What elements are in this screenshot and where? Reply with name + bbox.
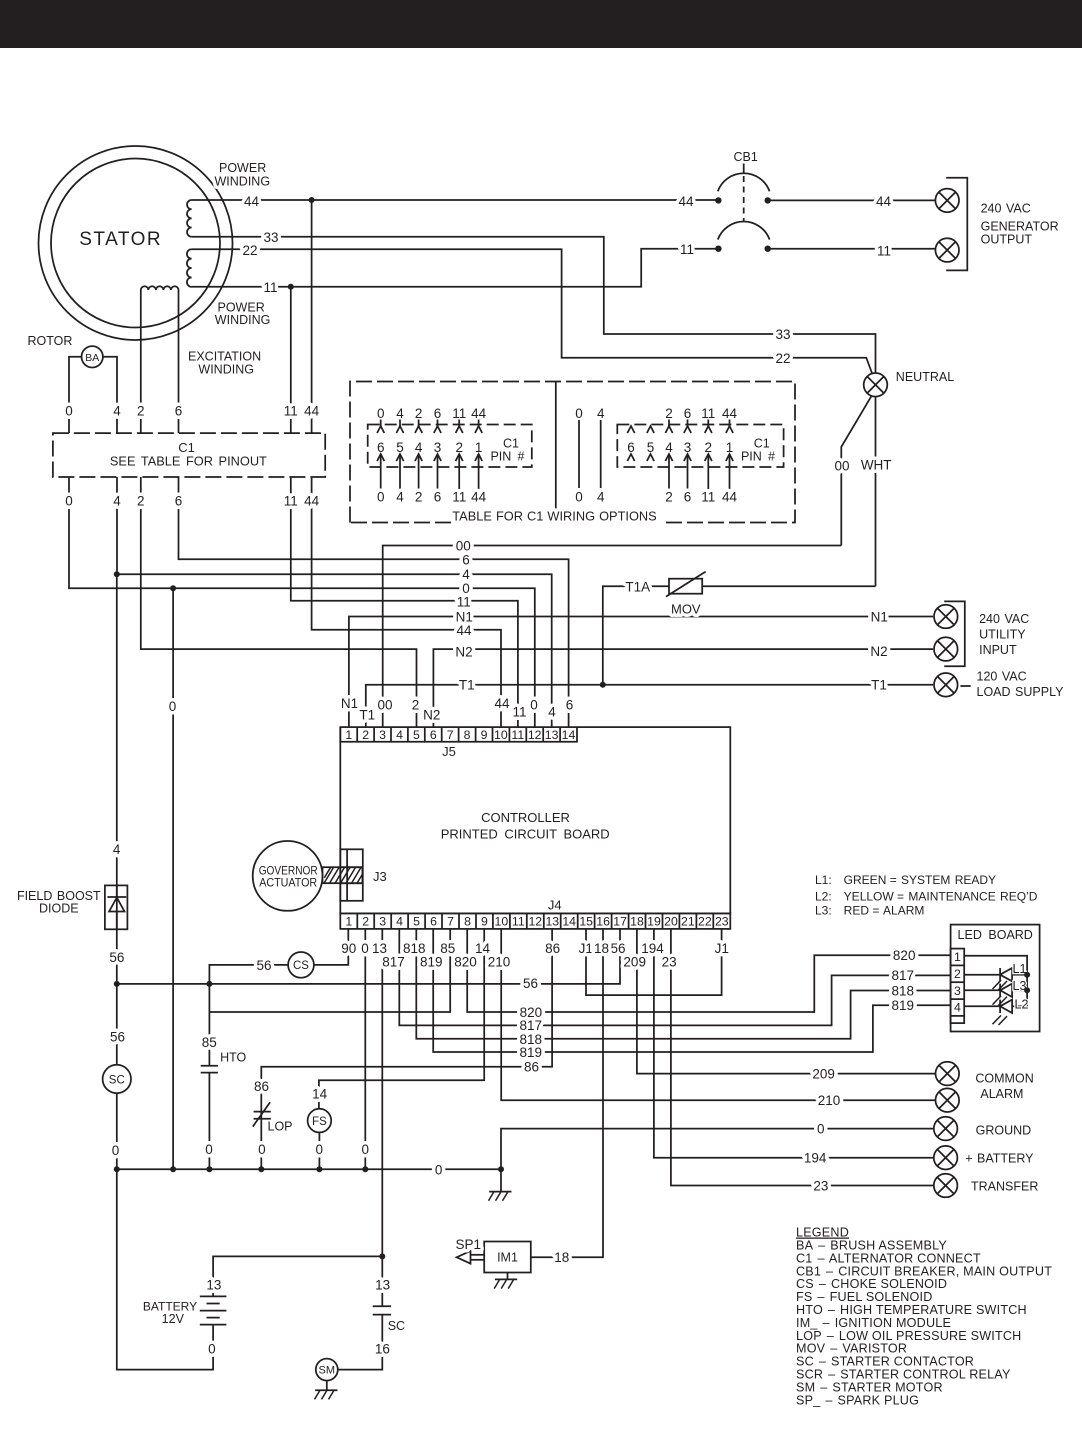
junction 11/down-lead — [288, 284, 294, 290]
svg-text:23: 23 — [662, 955, 677, 970]
svg-text:22: 22 — [242, 243, 257, 258]
wire J1 jumper (J4 pins 15-23) — [586, 929, 722, 995]
svg-text:COMMON: COMMON — [975, 1072, 1033, 1086]
junction 56-line at diode column — [114, 981, 120, 987]
svg-text:1: 1 — [345, 728, 352, 742]
svg-text:210: 210 — [488, 955, 511, 970]
svg-text:GENERATOR: GENERATOR — [981, 220, 1059, 234]
svg-text:6: 6 — [566, 698, 574, 713]
junction 44/down-lead — [309, 197, 315, 203]
wire 22 stator — [192, 249, 873, 374]
svg-text:194: 194 — [804, 1151, 827, 1166]
field boost diode wire (4/56 line from junction down) — [116, 574, 118, 984]
svg-text:0: 0 — [361, 941, 369, 956]
svg-text:CONTROLLER: CONTROLLER — [481, 810, 570, 825]
svg-text:15: 15 — [579, 915, 593, 929]
svg-text:SM: SM — [319, 1365, 336, 1377]
junction LED L1 anode — [1024, 972, 1030, 978]
svg-text:11: 11 — [701, 406, 715, 421]
wire 14 (J4 pin 9 to fuel solenoid) — [319, 929, 484, 1109]
svg-text:J1: J1 — [579, 941, 593, 956]
table for C1 wiring options outer dashed box — [350, 382, 795, 523]
low oil pressure switch LOP — [253, 1102, 293, 1133]
stator inner circle — [51, 159, 220, 328]
svg-text:4: 4 — [113, 842, 121, 857]
svg-text:MOV – VARISTOR: MOV – VARISTOR — [796, 1342, 907, 1356]
ground (main bus) — [489, 1192, 512, 1201]
svg-text:2: 2 — [415, 406, 423, 421]
starter contactor SC contact — [373, 1306, 405, 1333]
svg-text:ALARM: ALARM — [980, 1087, 1023, 1101]
svg-text:0: 0 — [377, 406, 385, 421]
wire 00 (neutral to J5 pin 3) — [383, 546, 842, 728]
svg-text:10: 10 — [495, 915, 509, 929]
wire LOP to ground bus — [260, 1119, 262, 1170]
svg-text:44: 44 — [494, 696, 510, 711]
svg-text:SC – STARTER CONTACTOR: SC – STARTER CONTACTOR — [796, 1355, 974, 1369]
svg-text:11: 11 — [877, 244, 891, 259]
svg-text:BA: BA — [85, 352, 99, 364]
svg-text:2: 2 — [137, 403, 145, 418]
wire 86 (J4 pin 13 to LOP) — [261, 929, 552, 1112]
table-right pin 1 wire 44 — [722, 406, 738, 505]
svg-text:SP1: SP1 — [456, 1237, 482, 1252]
svg-text:22: 22 — [775, 351, 790, 366]
label 240 VAC UTILITY INPUT — [979, 612, 1029, 657]
svg-text:2: 2 — [137, 493, 145, 508]
svg-text:56: 56 — [523, 976, 538, 991]
svg-text:820: 820 — [454, 955, 477, 970]
svg-text:7: 7 — [447, 915, 454, 929]
svg-text:4: 4 — [396, 490, 404, 505]
governor actuator — [253, 841, 323, 911]
svg-text:11: 11 — [512, 704, 526, 719]
svg-text:44: 44 — [304, 493, 320, 508]
wire 33 stator — [192, 237, 876, 374]
svg-text:7: 7 — [447, 728, 454, 742]
svg-text:WINDING: WINDING — [215, 175, 271, 189]
battery 12V — [143, 1296, 227, 1326]
svg-text:23: 23 — [715, 915, 729, 929]
wire T1A to MOV — [603, 586, 669, 685]
svg-text:INPUT: INPUT — [979, 643, 1017, 657]
svg-text:44: 44 — [456, 623, 472, 638]
label 120 VAC LOAD SUPPLY — [977, 669, 1065, 699]
svg-text:2: 2 — [362, 915, 369, 929]
wire N1 (J5 pin 1 to utility terminal) — [349, 617, 933, 728]
svg-text:N1: N1 — [341, 696, 358, 711]
svg-text:PIN #: PIN # — [490, 450, 524, 464]
wire excitation leg 2 — [140, 290, 142, 433]
svg-text:+ BATTERY: + BATTERY — [965, 1152, 1034, 1166]
wire BA left to node 0 — [69, 357, 82, 433]
table-left pin 1 wire 44 — [471, 406, 487, 505]
svg-text:4: 4 — [548, 704, 556, 719]
svg-text:21: 21 — [681, 915, 695, 929]
svg-text:4: 4 — [396, 915, 403, 929]
wire 819 (J4 pin 6 to LED board) — [433, 929, 950, 1052]
svg-text:0: 0 — [377, 490, 385, 505]
table-right pin 6 (unused) — [627, 426, 635, 461]
starter motor SM — [316, 1359, 338, 1381]
svg-text:13: 13 — [545, 915, 559, 929]
svg-text:BA – BRUSH ASSEMBLY: BA – BRUSH ASSEMBLY — [796, 1239, 947, 1253]
table-right pin 4 wire 2 — [665, 406, 673, 505]
svg-text:9: 9 — [481, 728, 488, 742]
brush assembly BA — [82, 346, 103, 367]
svg-text:LOP – LOW OIL PRESSURE SWITC: LOP – LOW OIL PRESSURE SWITCH — [796, 1329, 1021, 1343]
POWER WINDING label (bottom) — [215, 301, 271, 328]
connector C1 dashed box — [53, 433, 325, 477]
svg-text:0: 0 — [258, 1142, 266, 1157]
svg-text:PRINTED CIRCUIT BOARD: PRINTED CIRCUIT BOARD — [441, 827, 610, 842]
svg-text:4: 4 — [113, 493, 121, 508]
svg-text:209: 209 — [812, 1067, 835, 1082]
svg-text:4: 4 — [597, 406, 605, 421]
wire 11 stator to CB1 — [192, 249, 719, 287]
connector J4 header — [340, 913, 730, 929]
table divider — [555, 382, 557, 523]
svg-text:44: 44 — [722, 490, 738, 505]
tick at T1 terminal — [960, 685, 970, 687]
right pinout inner dashed box — [617, 425, 783, 468]
svg-text:210: 210 — [818, 1093, 841, 1108]
svg-text:TRANSFER: TRANSFER — [971, 1179, 1038, 1193]
wire excitation leg 6 — [178, 290, 180, 433]
svg-text:18: 18 — [594, 941, 609, 956]
svg-text:4: 4 — [396, 406, 404, 421]
LED L3 — [993, 984, 1028, 1006]
wire 0 (J4 pin 2 to ground bus) — [364, 929, 366, 1169]
label CONTROLLER PRINTED CIRCUIT BOARD — [441, 810, 610, 842]
svg-text:209: 209 — [623, 955, 646, 970]
svg-text:FS: FS — [312, 1116, 327, 1128]
power winding coil (lower, wires 22/11) — [187, 249, 192, 287]
svg-text:13: 13 — [375, 1278, 390, 1293]
svg-text:OUTPUT: OUTPUT — [981, 233, 1033, 247]
svg-text:44: 44 — [722, 406, 738, 421]
svg-text:817: 817 — [892, 968, 915, 983]
wire SC contact to starter motor — [338, 1315, 383, 1370]
terminal + battery — [934, 1146, 958, 1170]
svg-text:0: 0 — [169, 699, 177, 714]
svg-text:6: 6 — [434, 406, 442, 421]
svg-text:11: 11 — [457, 595, 471, 610]
svg-text:CS: CS — [293, 960, 309, 972]
svg-text:N1: N1 — [871, 610, 888, 625]
svg-text:820: 820 — [520, 1005, 543, 1020]
terminal transfer — [934, 1174, 958, 1198]
svg-text:11: 11 — [680, 242, 694, 257]
svg-text:20: 20 — [664, 915, 678, 929]
circuit breaker CB1 — [715, 150, 771, 252]
svg-text:817: 817 — [382, 955, 405, 970]
wire 6 (C1 to J5 pin 14) — [179, 477, 569, 727]
svg-text:56: 56 — [256, 958, 271, 973]
svg-text:SC: SC — [109, 1074, 125, 1086]
svg-text:WHT: WHT — [861, 457, 892, 472]
svg-text:6: 6 — [434, 490, 442, 505]
svg-text:0: 0 — [361, 1142, 369, 1157]
svg-text:819: 819 — [420, 955, 443, 970]
svg-text:4: 4 — [113, 403, 121, 418]
svg-text:0: 0 — [65, 493, 73, 508]
svg-text:33: 33 — [775, 327, 790, 342]
svg-text:6: 6 — [175, 403, 183, 418]
svg-text:11: 11 — [263, 280, 277, 295]
svg-text:86: 86 — [254, 1079, 269, 1094]
svg-text:STATOR: STATOR — [79, 229, 162, 250]
power winding coil (upper, wires 44/33) — [187, 200, 192, 237]
svg-text:GROUND: GROUND — [976, 1123, 1032, 1137]
top black title bar — [0, 0, 1082, 48]
svg-text:16: 16 — [596, 915, 610, 929]
fuel solenoid FS — [308, 1109, 332, 1133]
svg-text:L2: YELLOW = MAINTENANCE REQ: L2: YELLOW = MAINTENANCE REQ’D — [815, 890, 1038, 904]
svg-text:J4: J4 — [548, 898, 562, 913]
svg-text:819: 819 — [520, 1045, 543, 1060]
wire 11 (C1 to J5 pin 11) — [291, 477, 518, 727]
svg-text:4: 4 — [597, 490, 605, 505]
wire 44 (C1 to J5 pin 10) — [312, 477, 501, 727]
svg-text:11: 11 — [284, 403, 298, 418]
svg-text:SCR – STARTER CONTROL RELAY: SCR – STARTER CONTROL RELAY — [796, 1368, 1011, 1382]
svg-text:33: 33 — [263, 230, 278, 245]
svg-text:9: 9 — [481, 915, 488, 929]
wire 210 (J4 pin 10 to alarm terminal) — [501, 929, 935, 1100]
terminal 11 generator output — [935, 238, 959, 262]
wire N2 (J5 pin 6 to utility terminal) — [433, 649, 933, 727]
svg-text:ACTUATOR: ACTUATOR — [259, 875, 317, 889]
svg-text:ROTOR: ROTOR — [28, 334, 73, 348]
junction bus/pin2 — [362, 1166, 368, 1172]
svg-text:NEUTRAL: NEUTRAL — [896, 370, 954, 384]
svg-text:6: 6 — [175, 493, 183, 508]
wire IM1 to ground — [507, 1273, 509, 1280]
svg-text:13: 13 — [545, 728, 559, 742]
wire J4 pin 1 to choke solenoid (90) — [314, 929, 348, 965]
wire diode column to starter contactor SC — [116, 984, 118, 1065]
svg-text:WINDING: WINDING — [215, 313, 271, 327]
wire 2 (C1 to J5 pin 5) — [141, 477, 417, 727]
LED L1 — [993, 968, 1028, 990]
junction 13 wire split — [379, 1253, 385, 1259]
svg-text:18: 18 — [554, 1250, 569, 1265]
wire 194 (J4 pin 19 to battery terminal) — [654, 929, 933, 1158]
svg-text:0: 0 — [208, 1342, 216, 1357]
svg-text:2: 2 — [954, 967, 961, 981]
svg-text:LOAD SUPPLY: LOAD SUPPLY — [977, 685, 1065, 699]
wire 44 stator to CB1 — [192, 199, 719, 201]
high temperature switch HTO — [201, 1051, 247, 1073]
svg-text:22: 22 — [698, 915, 712, 929]
svg-text:EXCITATION: EXCITATION — [188, 350, 261, 364]
svg-text:PIN #: PIN # — [741, 450, 775, 464]
label 240 VAC GENERATOR OUTPUT — [981, 202, 1059, 247]
table-left pin 2 wire 11 — [452, 406, 466, 505]
svg-text:2: 2 — [665, 490, 673, 505]
svg-text:12V: 12V — [162, 1312, 185, 1326]
svg-text:5: 5 — [413, 728, 420, 742]
svg-text:3: 3 — [954, 984, 961, 998]
table-right pin 5 (unused) — [647, 426, 655, 461]
svg-text:HTO: HTO — [220, 1051, 246, 1065]
svg-text:6: 6 — [430, 915, 437, 929]
junction CS leg / 56 line — [206, 981, 212, 987]
svg-text:MOV: MOV — [671, 602, 701, 617]
svg-text:56: 56 — [110, 1030, 125, 1045]
svg-text:14: 14 — [312, 1086, 328, 1101]
terminal common alarm 209 — [936, 1062, 960, 1086]
wire 11 lead down to C1 — [290, 287, 292, 433]
svg-text:4: 4 — [954, 1001, 961, 1015]
svg-text:FS – FUEL SOLENOID: FS – FUEL SOLENOID — [796, 1290, 933, 1304]
junction 0-line to ground branch — [170, 585, 176, 591]
svg-text:SC: SC — [388, 1319, 405, 1333]
stator outer circle — [39, 146, 233, 340]
svg-text:SM – STARTER MOTOR: SM – STARTER MOTOR — [796, 1380, 943, 1394]
wire 209 (J4 pin 18 to common alarm) — [637, 929, 936, 1074]
wire bus to ground symbol — [500, 1169, 502, 1191]
junction T1/T1A — [600, 682, 606, 688]
svg-text:4: 4 — [462, 567, 470, 582]
table-right straight wire 0 — [575, 406, 583, 505]
wire 4 (C1 through junction to J5 pin 13) — [117, 477, 552, 727]
starter contactor SC coil — [103, 1065, 131, 1093]
svg-text:L2: L2 — [1015, 997, 1029, 1011]
wire 817 (J4 pin 4 to LED board) — [399, 929, 950, 1026]
svg-text:6: 6 — [462, 553, 470, 568]
svg-text:14: 14 — [562, 915, 576, 929]
svg-text:0: 0 — [435, 1162, 443, 1177]
wire 13 to SC contact — [381, 1256, 383, 1306]
svg-text:818: 818 — [892, 983, 915, 998]
wire 85 (J4 pin 7 to HTO) — [209, 929, 450, 1012]
wire 56 (J4 pin 17 to SC/HTO) — [117, 929, 620, 984]
svg-text:8: 8 — [464, 728, 471, 742]
wire FS to ground bus — [318, 1132, 320, 1169]
excitation winding coil — [141, 286, 179, 290]
svg-text:13: 13 — [206, 1278, 221, 1293]
junction 4-line — [114, 571, 120, 577]
wire 11 CB1 to output terminal — [768, 248, 936, 250]
svg-text:44: 44 — [471, 406, 487, 421]
wire pin 2 to LED L1 — [964, 974, 1000, 976]
wire pin 4 to LED L2 — [964, 1005, 1000, 1007]
connector J5 header — [340, 727, 577, 742]
svg-text:0: 0 — [205, 1142, 213, 1157]
svg-text:120 VAC: 120 VAC — [977, 669, 1027, 683]
svg-text:POWER: POWER — [219, 161, 266, 175]
wire BA right to node 4 — [103, 357, 117, 433]
svg-text:820: 820 — [893, 948, 916, 963]
wire SM to ground — [326, 1381, 328, 1391]
svg-text:2: 2 — [415, 490, 423, 505]
svg-text:CS – CHOKE SOLENOID: CS – CHOKE SOLENOID — [796, 1277, 947, 1291]
junction bus/ground lead — [498, 1166, 504, 1172]
POWER WINDING label (top) — [215, 161, 271, 189]
svg-text:L1: GREEN = SYSTEM READY: L1: GREEN = SYSTEM READY — [815, 873, 996, 887]
table-right pin 3 wire 6 — [684, 406, 692, 505]
svg-text:44: 44 — [876, 194, 892, 209]
svg-text:17: 17 — [613, 915, 627, 929]
table-right pin 2 wire 11 — [701, 406, 715, 505]
wire 44 lead down to C1 — [311, 200, 313, 433]
label FIELD BOOST DIODE — [17, 889, 101, 916]
svg-text:LED BOARD: LED BOARD — [958, 928, 1033, 942]
wire 18 (J4 pin 16 to ignition module) — [531, 929, 603, 1257]
svg-text:86: 86 — [524, 1060, 539, 1075]
wire 44 CB1 to output terminal — [768, 199, 936, 201]
wire LED common (pin 1) — [964, 956, 1027, 1007]
wire 00 from neutral — [841, 396, 871, 546]
neutral terminal — [864, 373, 888, 397]
svg-text:2: 2 — [412, 698, 420, 713]
svg-text:23: 23 — [813, 1178, 828, 1193]
table-left pin 5 wire 4 — [396, 406, 404, 505]
ground (ignition module) — [494, 1279, 517, 1288]
svg-text:CB1: CB1 — [734, 150, 758, 164]
svg-text:T1: T1 — [359, 708, 375, 723]
wire battery negative return — [117, 1169, 213, 1369]
svg-text:85: 85 — [202, 1035, 217, 1050]
svg-text:44: 44 — [678, 194, 694, 209]
field boost diode — [105, 885, 128, 929]
svg-text:12: 12 — [528, 915, 542, 929]
svg-text:J5: J5 — [442, 744, 456, 759]
svg-text:44: 44 — [304, 403, 320, 418]
terminal N2 utility input — [934, 637, 958, 661]
svg-text:11: 11 — [452, 406, 466, 421]
svg-text:3: 3 — [379, 915, 386, 929]
svg-text:3: 3 — [379, 728, 386, 742]
terminal common alarm 210 — [936, 1088, 960, 1112]
ground bus — [117, 1168, 501, 1170]
svg-text:2: 2 — [362, 728, 369, 742]
varistor MOV — [666, 572, 706, 617]
svg-text:90: 90 — [341, 941, 356, 956]
svg-text:19: 19 — [647, 915, 661, 929]
terminal ground — [934, 1117, 958, 1141]
controller printed circuit board outline — [340, 727, 730, 913]
svg-text:L3: RED = ALARM: L3: RED = ALARM — [815, 904, 924, 918]
wire 0 (C1 to J5 pin 12) — [69, 477, 535, 727]
label C1 PIN # (right table) — [741, 437, 775, 464]
svg-text:819: 819 — [892, 998, 915, 1013]
spark plug lead SP1 — [456, 1237, 485, 1263]
table-left pin 6 wire 0 — [377, 406, 385, 505]
left pinout inner dashed box — [368, 425, 532, 468]
wire HTO column — [208, 1012, 210, 1066]
svg-text:00: 00 — [456, 539, 471, 554]
wire 0 branch to ground bus — [172, 588, 174, 1169]
choke solenoid CS — [288, 952, 314, 978]
svg-text:4: 4 — [396, 728, 403, 742]
svg-text:0: 0 — [65, 403, 73, 418]
junction bus/FS — [316, 1166, 322, 1172]
svg-text:WINDING: WINDING — [198, 363, 254, 377]
junction bus/0 branch — [170, 1166, 176, 1172]
svg-text:T1: T1 — [871, 678, 887, 693]
svg-text:44: 44 — [471, 490, 487, 505]
svg-text:14: 14 — [562, 728, 576, 742]
svg-text:11: 11 — [284, 493, 298, 508]
svg-text:TABLE FOR C1 WIRING OPTIONS: TABLE FOR C1 WIRING OPTIONS — [452, 509, 656, 524]
svg-text:12: 12 — [528, 728, 542, 742]
table-left pin 3 wire 6 — [434, 406, 442, 505]
svg-text:00: 00 — [377, 698, 392, 713]
svg-text:N2: N2 — [870, 644, 887, 659]
